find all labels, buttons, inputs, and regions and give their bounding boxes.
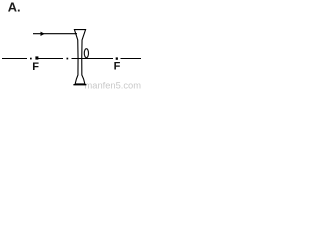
concave lens body xyxy=(74,30,85,84)
node F left focal point xyxy=(35,56,38,59)
svg-text:A.: A. xyxy=(8,0,21,15)
svg-text:F: F xyxy=(32,61,39,73)
lens foot bar xyxy=(73,84,86,86)
wire optical axis dash 1 xyxy=(2,58,27,60)
wire incident ray xyxy=(33,33,77,35)
wire optical axis dash 4 xyxy=(121,58,142,60)
wire optical axis dash 2 xyxy=(38,58,63,60)
axis dot 2 xyxy=(67,58,69,60)
wire optical axis dash 3 xyxy=(72,58,114,60)
svg-text:F: F xyxy=(114,61,121,73)
label O optical center xyxy=(84,49,88,58)
svg-text:manfen5.com: manfen5.com xyxy=(85,81,142,91)
node F right focal point xyxy=(116,57,118,59)
ray arrowhead xyxy=(41,32,45,36)
axis dot 1 xyxy=(30,58,32,60)
background xyxy=(0,0,146,90)
